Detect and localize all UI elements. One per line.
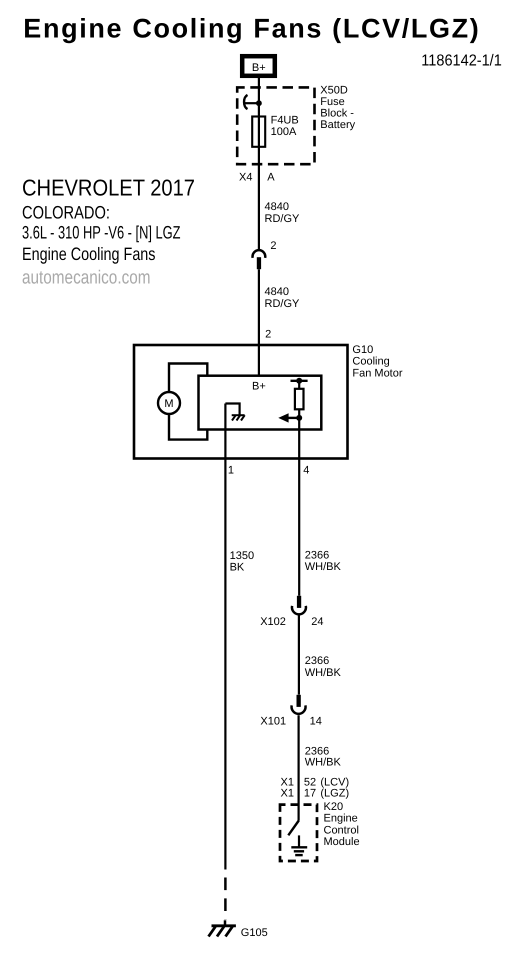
label 2 (upper connector) xyxy=(270,240,276,252)
svg-text:A: A xyxy=(267,172,275,184)
svg-text:F4UB: F4UB xyxy=(271,115,299,127)
svg-text:Fuse: Fuse xyxy=(320,96,344,108)
low side driver switch in K20 xyxy=(288,821,299,836)
pin label 4 xyxy=(303,464,309,476)
svg-text:4: 4 xyxy=(303,464,309,476)
B+ battery feed box xyxy=(242,56,275,76)
wire label 4840 RD/GY (lower) xyxy=(265,286,301,310)
pin labels X1 17 (LGZ) xyxy=(281,788,350,800)
svg-text:2: 2 xyxy=(270,240,276,252)
ground symbol in K20 xyxy=(291,835,307,855)
svg-text:Module: Module xyxy=(324,836,360,848)
ground wire pin1 (dashed) xyxy=(224,878,227,920)
motor M1 circle xyxy=(158,392,180,414)
label G105 xyxy=(241,927,268,939)
ground G105 symbol xyxy=(209,920,236,936)
wire from B+ to inline connector 2 xyxy=(258,78,260,250)
svg-text:Block -: Block - xyxy=(320,107,354,119)
junction dot in fuse block xyxy=(256,100,262,106)
internal ground symbol in module xyxy=(225,404,244,421)
connector X101 socket arc xyxy=(292,705,306,713)
ground wire pin1 (solid) xyxy=(224,404,226,870)
wire label 4840 RD/GY (upper) xyxy=(265,201,301,225)
labels X102 / 24 xyxy=(260,616,323,628)
wire X101 to K20 xyxy=(298,715,300,821)
svg-text:WH/BK: WH/BK xyxy=(305,667,342,679)
svg-text:2366: 2366 xyxy=(305,655,329,667)
resistor element in module xyxy=(295,381,304,418)
svg-text:X102: X102 xyxy=(260,616,286,628)
vehicle info text block xyxy=(22,175,195,289)
internal supply T-bar xyxy=(291,380,308,382)
junction dot on T-bar xyxy=(296,378,302,384)
inline connector 2 (arc) xyxy=(253,250,266,258)
connector X101 pin bar xyxy=(297,695,301,707)
svg-text:automecanico.com: automecanico.com xyxy=(22,268,151,289)
svg-text:Engine Cooling Fans (LCV/LGZ): Engine Cooling Fans (LCV/LGZ) xyxy=(23,13,479,43)
svg-text:WH/BK: WH/BK xyxy=(305,561,342,573)
wire label 1350 BK xyxy=(230,550,254,573)
svg-text:WH/BK: WH/BK xyxy=(305,756,342,768)
svg-text:COLORADO:: COLORADO: xyxy=(22,203,110,223)
svg-text:B+: B+ xyxy=(252,62,266,74)
svg-text:3.6L - 310 HP -V6 - [N] LGZ: 3.6L - 310 HP -V6 - [N] LGZ xyxy=(22,222,181,242)
drawing number 1186142-1/1 xyxy=(421,53,502,70)
svg-text:100A: 100A xyxy=(271,126,297,138)
svg-text:Engine Cooling Fans: Engine Cooling Fans xyxy=(22,244,156,264)
G10 cooling fan motor outer box xyxy=(134,345,348,459)
svg-text:G10: G10 xyxy=(352,344,373,356)
svg-text:1186142-1/1: 1186142-1/1 xyxy=(421,53,502,70)
svg-text:2: 2 xyxy=(265,328,271,340)
pin label 2 at fan motor xyxy=(265,328,271,340)
svg-text:Engine: Engine xyxy=(324,813,358,825)
connector terminal hook in fuse block xyxy=(244,95,247,109)
svg-text:1: 1 xyxy=(228,464,234,476)
svg-text:B+: B+ xyxy=(252,380,266,392)
wire from connector 2 to fan module xyxy=(258,269,260,376)
control arrow in module xyxy=(278,413,299,422)
svg-text:1350: 1350 xyxy=(230,550,254,562)
svg-text:24: 24 xyxy=(311,616,323,628)
svg-text:(LGZ): (LGZ) xyxy=(320,788,349,800)
svg-text:RD/GY: RD/GY xyxy=(265,298,301,310)
wire label 2366 WH/BK (second) xyxy=(305,655,342,679)
svg-text:X50D: X50D xyxy=(320,85,348,97)
svg-text:X101: X101 xyxy=(260,715,286,727)
connector X102 pin bar xyxy=(297,596,301,608)
label G10 Cooling Fan Motor xyxy=(352,344,402,380)
svg-text:M: M xyxy=(164,398,173,410)
connector X102 socket arc xyxy=(292,606,306,614)
wire label 2366 WH/BK (first) xyxy=(305,549,342,573)
svg-text:Cooling: Cooling xyxy=(352,356,389,368)
svg-text:17: 17 xyxy=(304,788,316,800)
svg-text:X1: X1 xyxy=(281,788,294,800)
pin label 1 xyxy=(228,464,234,476)
fan control module inner box xyxy=(199,376,322,430)
svg-text:14: 14 xyxy=(310,715,322,727)
svg-text:K20: K20 xyxy=(324,801,344,813)
svg-text:Fan Motor: Fan Motor xyxy=(352,367,402,379)
label K20 Engine Control Module xyxy=(324,801,360,848)
svg-text:4840: 4840 xyxy=(265,201,289,213)
wire X102 to X101 xyxy=(298,616,300,695)
svg-text:RD/GY: RD/GY xyxy=(265,213,301,225)
fuse F4UB 100A xyxy=(252,115,299,147)
pin labels X1 52 (LCV) xyxy=(281,777,350,789)
motor branch wiring loop xyxy=(169,364,207,440)
svg-text:X4: X4 xyxy=(239,172,252,184)
svg-text:G105: G105 xyxy=(241,927,268,939)
fuse block X50D dashed box xyxy=(237,87,314,164)
svg-text:Battery: Battery xyxy=(320,119,355,131)
title: Engine Cooling Fans (LCV/LGZ) xyxy=(23,13,479,43)
label B+ inside module xyxy=(252,380,266,392)
wire from hook to node xyxy=(245,102,259,104)
junction dot at resistor output xyxy=(296,415,302,421)
svg-text:2366: 2366 xyxy=(305,549,329,561)
svg-text:Control: Control xyxy=(324,824,359,836)
inline connector 2 (pin bar) xyxy=(257,257,261,269)
K20 engine control module dashed box xyxy=(280,805,317,861)
svg-text:CHEVROLET 2017: CHEVROLET 2017 xyxy=(22,175,195,201)
label X50D Fuse Block - Battery xyxy=(320,85,355,131)
wire label 2366 WH/BK (third) xyxy=(305,745,342,768)
svg-text:BK: BK xyxy=(230,562,245,574)
wire pin4 to X102 xyxy=(298,418,300,596)
pin labels X4 / A xyxy=(239,172,275,184)
labels X101 / 14 xyxy=(260,715,321,727)
svg-text:4840: 4840 xyxy=(265,286,289,298)
